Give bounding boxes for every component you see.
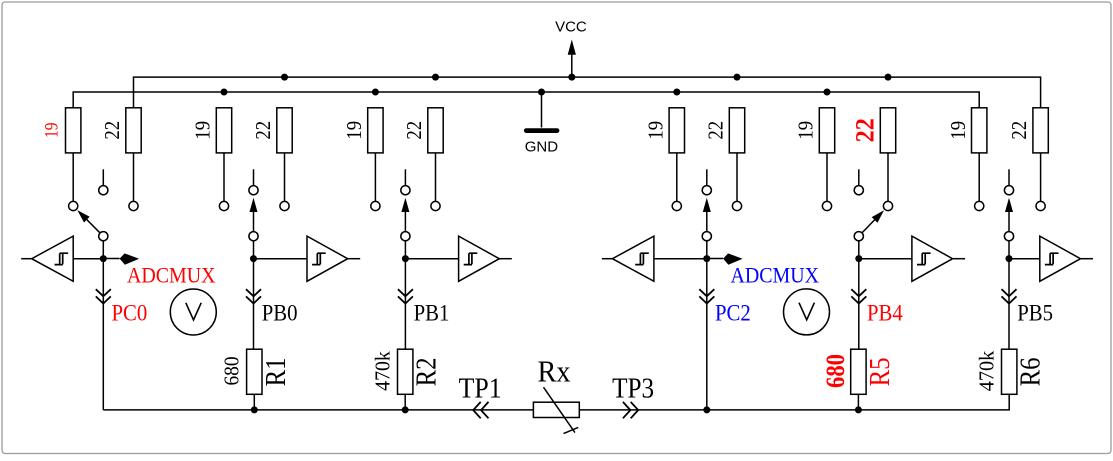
svg-text:19: 19 <box>946 121 970 140</box>
voltmeter V1 (PC0) <box>170 289 216 335</box>
wire pole to node (PB4) <box>858 241 860 259</box>
node GND junction <box>538 89 545 96</box>
resistor 22 (PB0 pull-up) <box>284 153 286 202</box>
svg-text:470k: 470k <box>974 350 998 391</box>
node PC2 <box>703 255 710 262</box>
terminal circle 22 (PB5) <box>1036 201 1045 210</box>
wire PB1 node down to R2 <box>404 259 406 350</box>
svg-text:22: 22 <box>100 121 124 140</box>
terminal circle 19 (PB5) <box>975 201 984 210</box>
wire PB1 node to buffer <box>405 258 458 260</box>
resistor 22 (PB5 pull-up) <box>1040 153 1042 202</box>
switch pole circle (PB5) <box>1004 232 1013 241</box>
wire pole to node (PB1) <box>404 241 406 259</box>
port chevrons (PB0) <box>246 289 261 303</box>
ground symbol <box>541 92 543 128</box>
wire PB4 node to buffer <box>859 258 912 260</box>
resistor R5 <box>851 349 866 394</box>
resistor 22 (PC0 pull-up) <box>133 153 135 202</box>
node junction lower rail / 19-resistor PB0 <box>221 89 228 96</box>
wire U4 (PC2) buffer input stub <box>602 258 613 260</box>
wire U6 (PB5) buffer output <box>1081 258 1094 260</box>
wire U5 (PB4) buffer output <box>953 258 966 260</box>
svg-text:GND: GND <box>525 139 559 156</box>
wire pole to node (PC0) <box>102 241 104 259</box>
node junction VCC rail / 22-resistor PB1 <box>432 74 439 81</box>
wire PB5 node down to R6 <box>1008 259 1010 350</box>
resistor 19 (PB4 pull-up) <box>826 153 828 202</box>
resistor Rx (variable, measured) <box>533 402 579 417</box>
resistor R1 <box>247 349 262 394</box>
node junction lower rail / 19-resistor PC2 <box>673 89 680 96</box>
wire bottom rail left (PC0 to Rx) <box>103 409 533 411</box>
stub terminal (PC0 switch open position) <box>102 169 104 185</box>
wire lower bus rail <box>73 92 979 108</box>
stub terminal (PB0 switch open position) <box>253 169 255 185</box>
port chevrons (PB4) <box>851 289 866 303</box>
terminal circle 22 (PB0) <box>280 201 289 210</box>
svg-text:ADCMUX: ADCMUX <box>127 262 216 287</box>
switch pole circle (PB1) <box>401 232 410 241</box>
stub terminal (PB5 switch open position) <box>1008 169 1010 185</box>
node junction lower rail / 19-resistor PB4 <box>824 89 831 96</box>
svg-text:22: 22 <box>251 121 275 140</box>
voltmeter V2 (PC2) <box>784 289 830 335</box>
svg-text:R5: R5 <box>864 357 896 386</box>
svg-text:19: 19 <box>342 121 366 140</box>
svg-text:19: 19 <box>643 121 667 140</box>
svg-text:PB1: PB1 <box>414 301 450 326</box>
port chevrons (PB1) <box>398 289 413 303</box>
resistor R6 <box>1002 349 1017 394</box>
resistor 22 (PB1 pull-up) <box>435 153 437 202</box>
svg-text:PC2: PC2 <box>715 301 751 326</box>
node junction VCC rail / 22-resistor PB0 <box>281 74 288 81</box>
svg-text:PB0: PB0 <box>262 301 298 326</box>
node PB0 <box>250 255 257 262</box>
svg-text:22: 22 <box>704 121 728 140</box>
wire pole to node (PC2) <box>706 241 708 259</box>
port chevrons (PC2) <box>699 289 714 303</box>
schmitt buffer U4 (PC2) <box>612 236 654 281</box>
svg-text:19: 19 <box>794 121 818 140</box>
schmitt buffer U6 (PB5) <box>1040 236 1081 281</box>
node PB1 <box>402 255 409 262</box>
svg-text:TP1: TP1 <box>459 374 502 405</box>
wire PB5 node to buffer <box>1009 258 1040 260</box>
node junction VCC rail / 22-resistor PC2 <box>734 74 741 81</box>
terminal circle 19 (PC0) <box>69 201 78 210</box>
node PB4 <box>855 255 862 262</box>
svg-text:470k: 470k <box>370 351 394 391</box>
terminal circle 19 (PB1) <box>371 201 380 210</box>
switch pole circle (PC2) <box>702 232 711 241</box>
resistor 19 (PC2 pull-up) <box>676 153 678 202</box>
wire PC2 node down to bottom rail <box>706 259 708 410</box>
wire U3 (PB1) buffer output <box>499 258 512 260</box>
svg-text:R2: R2 <box>411 357 443 386</box>
port chevrons (PC0) <box>96 289 111 303</box>
schmitt buffer U1 (PC0) <box>32 236 73 281</box>
wire bottom rail right (Rx to R6) <box>579 394 1009 410</box>
switch pole circle (PC0) <box>99 232 108 241</box>
switch pole circle (PB0) <box>249 232 258 241</box>
switch arm arrow (PB5 -> up) <box>1008 212 1010 232</box>
wire U1 (PC0) buffer input stub <box>21 258 32 260</box>
svg-text:R1: R1 <box>260 357 292 386</box>
ADCMUX arrow (PC0) <box>103 258 119 260</box>
svg-text:22: 22 <box>402 121 426 140</box>
wire U2 (PB0) buffer output <box>348 258 361 260</box>
switch arm arrow (PC0 -> 19) <box>86 219 100 233</box>
switch arm arrow (PB4 -> 22) <box>862 219 875 233</box>
stub terminal (PC2 switch open position) <box>706 169 708 185</box>
schmitt buffer U5 (PB4) <box>912 236 953 281</box>
wire PB0 node to buffer <box>254 258 308 260</box>
wire PB4 node down to R5 <box>858 259 860 350</box>
svg-text:680: 680 <box>821 354 850 388</box>
svg-text:19: 19 <box>41 123 62 139</box>
wire VCC rail (upper bus) <box>134 77 1041 108</box>
svg-text:Rx: Rx <box>538 353 571 388</box>
node bottom rail junction PC2 <box>703 406 710 413</box>
svg-text:19: 19 <box>191 121 215 140</box>
schmitt buffer U3 (PB1) <box>459 236 500 281</box>
node VCC junction <box>568 74 575 81</box>
terminal circle 22 (PC0) <box>129 201 138 210</box>
node PC0 <box>100 255 107 262</box>
node junction lower rail / 19-resistor PB1 <box>372 89 379 96</box>
terminal circle 19 (PB0) <box>219 201 228 210</box>
port chevrons (PB5) <box>1002 289 1017 303</box>
svg-text:R6: R6 <box>1015 357 1047 386</box>
resistor 22 (PC2 pull-up) <box>736 153 738 202</box>
svg-text:TP3: TP3 <box>612 374 654 405</box>
svg-text:PC0: PC0 <box>112 301 148 326</box>
resistor R2 <box>398 349 413 394</box>
terminal circle 19 (PC2) <box>672 201 681 210</box>
wire pole to node (PB5) <box>1008 241 1010 259</box>
wire pole to node (PB0) <box>253 241 255 259</box>
svg-text:22: 22 <box>851 118 880 142</box>
svg-text:680: 680 <box>220 356 244 385</box>
switch arm arrow (PB0 -> up) <box>253 212 255 232</box>
resistor 19 (PB1 pull-up) <box>374 153 376 202</box>
resistor 19 (PB5 pull-up) <box>978 153 980 202</box>
node bottom rail junction R5 <box>855 406 862 413</box>
VCC power symbol <box>571 55 573 78</box>
terminal circle 22 (PB4) <box>883 201 892 210</box>
wire PC2 buffer to node <box>654 258 707 260</box>
wire PC0 node down to bottom rail <box>102 259 104 410</box>
ADCMUX arrow (PC2) <box>707 258 723 260</box>
svg-text:PB4: PB4 <box>867 301 903 326</box>
stub terminal (PB1 switch open position) <box>404 169 406 185</box>
resistor 19 (PB0 pull-up) <box>223 153 225 202</box>
switch arm arrow (PC2 -> up) <box>706 212 708 232</box>
terminal circle 22 (PB1) <box>431 201 440 210</box>
resistor 19 (PC0 pull-up) <box>72 153 74 202</box>
terminal circle 19 (PB4) <box>822 201 831 210</box>
node bottom rail junction R1 <box>251 406 258 413</box>
wire PB0 node down to R1 <box>253 259 255 350</box>
test point TP1 chevrons <box>473 402 488 418</box>
svg-text:PB5: PB5 <box>1017 301 1053 326</box>
node PB5 <box>1006 255 1013 262</box>
svg-text:22: 22 <box>1007 121 1031 140</box>
schmitt buffer U2 (PB0) <box>307 236 348 281</box>
switch arm arrow (PB1 -> up) <box>404 212 406 232</box>
wire PC0 buffer to node <box>73 258 103 260</box>
svg-text:VCC: VCC <box>555 19 587 36</box>
resistor 22 (PB4 pull-up) <box>887 153 889 202</box>
switch pole circle (PB4) <box>854 232 863 241</box>
terminal circle 22 (PC2) <box>732 201 741 210</box>
node bottom rail junction R2 <box>402 406 409 413</box>
node junction VCC rail / 22-resistor PB4 <box>885 74 892 81</box>
stub terminal (PB4 switch open position) <box>858 169 860 185</box>
svg-text:ADCMUX: ADCMUX <box>731 262 820 287</box>
test point TP3 chevrons <box>623 402 638 418</box>
